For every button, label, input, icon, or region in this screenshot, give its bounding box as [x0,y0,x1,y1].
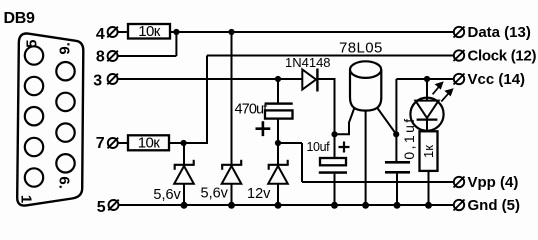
capacitor C2 plus sign [339,142,350,153]
svg-text:DB9: DB9 [4,10,36,27]
wire Clock row [207,55,454,57]
svg-text:Vpp (4): Vpp (4) [468,174,519,191]
svg-text:Clock (12): Clock (12) [468,48,537,65]
diode D4 1N4148 [302,69,317,92]
svg-text:4: 4 [96,26,105,43]
wire pin7 row to clock riser [169,142,208,144]
capacitor C1 470uf top lead [277,79,279,103]
svg-text:Vcc (14): Vcc (14) [468,71,526,88]
junction gnd 0.1uf [394,202,401,209]
pin 4 terminal [107,27,118,38]
svg-text:9.: 9. [57,42,74,55]
junction gnd zener D1 [181,202,188,209]
wire Vcc riser [395,79,397,162]
junction gnd regulator [362,202,369,209]
DB9 pin circle 6 (right col bottom) [56,154,74,172]
capacitor C1 470uf top plate [265,102,293,104]
terminal Vpp [454,177,465,188]
LED D5 arrow 1 [433,83,443,95]
svg-text:1N4148: 1N4148 [285,55,331,70]
DB9 pin circle 7 [56,123,74,141]
svg-text:3: 3 [93,72,102,89]
wire Clock riser [206,56,208,145]
zener D2 5.6v [221,160,242,205]
pin 3 terminal [107,74,118,85]
pin 5 terminal [108,200,119,211]
svg-text:0,1uf: 0,1uf [401,116,417,159]
junction after R2 [181,140,187,146]
capacitor C1 470uf bottom lead [277,119,279,143]
LED D5 arrow 2 [441,89,452,101]
capacitor C1 470uf bottom plate [265,110,293,118]
resistor R3 1k [420,131,438,171]
terminal Gnd [454,200,465,211]
svg-text:10к: 10к [138,23,160,40]
wire Vcc row [396,78,454,80]
svg-text:5: 5 [24,40,41,48]
DB9 pin circle 2 [25,138,43,156]
terminal Clock [454,50,465,61]
terminal Vcc [454,74,465,85]
wire Vpp row [302,181,454,183]
junction Vcc/LED branch [424,76,430,82]
wire pin4 to resistor [118,31,128,33]
wire pin8 riser [175,31,177,56]
wire pin3 row [118,78,303,80]
pin 7 terminal [108,138,119,149]
junction gnd zener D3 [275,202,282,209]
svg-text:470uf: 470uf [235,102,269,118]
wire Data row [170,31,454,33]
junction 470uf/zener/Vpp [275,140,281,146]
junction gnd 10uf [331,202,338,209]
resistor R1 10k [128,24,170,39]
svg-text:7: 7 [96,135,105,152]
DB9 pin circle 1 (left col bottom) [25,168,43,186]
wire LED branch from Vcc [426,79,428,101]
svg-text:5,6v: 5,6v [201,186,229,202]
junction gnd zener D2 [228,202,235,209]
pin 8 terminal [107,51,118,62]
junction diode/10uf/regulator-in [331,131,337,137]
svg-text:78L05: 78L05 [339,40,383,57]
resistor R2 10k [128,135,169,150]
capacitor C3 0.1uf top plate [385,161,410,164]
zener D3 12v [268,143,289,205]
regulator U1 middle leg (gnd) [365,111,367,205]
junction pin3/470uf [275,76,281,82]
DB9 pin circle 5 (left col top) [25,46,43,64]
wire zener D2 drop from Data row [231,32,233,164]
svg-text:Data (13): Data (13) [468,24,531,41]
terminal Data [454,27,465,38]
capacitor C1 plus sign [256,121,271,136]
svg-text:5: 5 [97,199,106,216]
DB9 pin circle 8 [56,93,74,111]
capacitor C3 0.1uf bottom plate [385,171,410,174]
DB9 pin circle 4 [25,77,43,95]
wire pin7 to resistor [118,142,128,144]
svg-text:5,6v: 5,6v [153,187,181,203]
DB9 connector shell [17,33,83,205]
capacitor C2 10uf bottom plate [319,171,347,174]
wire Vpp link horizontal [278,142,302,144]
junction gnd 1k [425,202,432,209]
junction Data/zener branch [228,29,234,35]
junction regulator-out/0.1uf/Vcc riser [393,131,399,137]
wire pin8 horizontal [118,55,177,57]
resistor R3 bottom lead [428,171,430,205]
wire Vpp link riser [301,143,303,182]
svg-text:1к: 1к [421,145,436,158]
regulator U1 78L05 body [350,61,381,110]
capacitor C2 10uf bottom lead [334,174,336,205]
capacitor C2 10uf top plate (box) [320,158,346,165]
svg-text:Gnd (5): Gnd (5) [468,197,521,214]
wire to regulator input leg [335,108,355,135]
svg-text:8: 8 [96,48,105,65]
wire diode out [317,79,334,158]
DB9 pin circle 9 (right col top) [56,62,74,80]
svg-text:10к: 10к [138,134,160,151]
svg-text:1: 1 [17,195,34,203]
wire Gnd row [118,204,454,206]
DB9 pin circle 3 [25,107,43,125]
junction after R1 [173,29,179,35]
svg-text:10uf: 10uf [307,140,331,154]
capacitor C3 bottom lead [396,174,398,205]
zener D1 5.6v [174,143,195,205]
svg-text:12v: 12v [247,186,271,202]
svg-text:6.: 6. [55,176,72,189]
regulator U1 right leg (out) [377,108,396,134]
LED D5 [410,98,443,132]
